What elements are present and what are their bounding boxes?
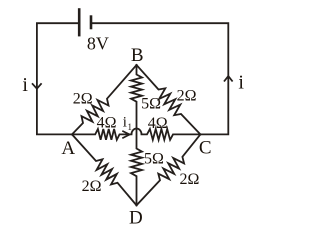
battery V1 short plate bbox=[90, 15, 93, 29]
svg-text:i: i bbox=[123, 114, 127, 130]
arrow: current i (up) on right rail bbox=[224, 76, 233, 81]
svg-text:2Ω: 2Ω bbox=[73, 90, 93, 107]
svg-text:A: A bbox=[61, 138, 75, 159]
resistor R_BC 2ohm on edge B-C bbox=[137, 65, 201, 134]
wire hop: horizontal wire jumps over vertical wire bbox=[132, 129, 142, 135]
wire B-D with resistor 5ohm (upper) and resistor 5ohm (lower) bbox=[131, 65, 142, 205]
resistor R_DC 2ohm on edge D-C bbox=[137, 134, 201, 205]
arrow: current i1 (right) on center wire bbox=[122, 131, 129, 138]
svg-text:5Ω: 5Ω bbox=[144, 150, 164, 167]
battery V1 long plate bbox=[78, 8, 81, 36]
svg-text:2Ω: 2Ω bbox=[179, 171, 199, 188]
wire: battery negative lead, left rail down to node A bbox=[37, 23, 79, 134]
resistor R_AD 2ohm on edge A-D bbox=[72, 134, 137, 205]
svg-text:4Ω: 4Ω bbox=[148, 115, 168, 132]
wire: battery positive lead, right rail down to node C bbox=[91, 23, 228, 134]
svg-text:C: C bbox=[199, 138, 212, 159]
arrow: current i (down) on left rail bbox=[32, 83, 42, 88]
svg-text:D: D bbox=[129, 207, 143, 228]
svg-text:i: i bbox=[238, 72, 244, 94]
svg-text:2Ω: 2Ω bbox=[177, 87, 197, 104]
svg-text:B: B bbox=[131, 45, 144, 66]
wire A to center with resistor 4ohm (left) bbox=[72, 129, 132, 140]
resistor R_AB 2ohm on edge A-B bbox=[72, 65, 137, 134]
svg-text:1: 1 bbox=[128, 122, 133, 132]
svg-text:4Ω: 4Ω bbox=[97, 115, 117, 132]
svg-text:2Ω: 2Ω bbox=[82, 178, 102, 195]
svg-text:5Ω: 5Ω bbox=[141, 95, 161, 112]
wire center to C with resistor 4ohm (right) bbox=[142, 129, 201, 140]
svg-text:i: i bbox=[22, 74, 28, 96]
svg-text:8V: 8V bbox=[87, 33, 109, 53]
